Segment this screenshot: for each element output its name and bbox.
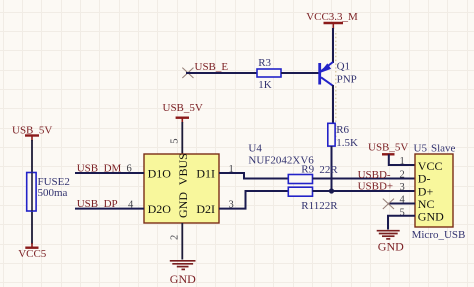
svg-text:R3: R3: [258, 57, 271, 69]
svg-text:1K: 1K: [258, 79, 272, 91]
fuse FUSE2: [27, 173, 70, 212]
connector U5: [415, 154, 453, 227]
svg-text:USBD-: USBD-: [358, 169, 391, 181]
svg-text:500ma: 500ma: [38, 187, 68, 199]
svg-text:2: 2: [400, 169, 405, 180]
svg-text:D1O: D1O: [148, 167, 172, 181]
svg-text:R6: R6: [336, 124, 349, 136]
power port USB_5V (right): [368, 141, 408, 154]
svg-text:GND: GND: [176, 192, 190, 218]
wire R6 to D+ junction: [331, 146, 333, 191]
svg-text:Q1: Q1: [337, 60, 350, 72]
no-ERC marker on USB_E: [182, 68, 193, 78]
svg-text:USB_5V: USB_5V: [163, 102, 203, 114]
transistor Q1: [320, 60, 357, 85]
wire VCC3.3_M to Q1 emitter: [332, 28, 334, 63]
svg-text:R1122R: R1122R: [301, 200, 338, 212]
svg-text:2: 2: [170, 235, 181, 240]
svg-text:1.5K: 1.5K: [336, 137, 358, 149]
svg-text:VCC5: VCC5: [18, 248, 47, 260]
svg-text:VBUS: VBUS: [176, 153, 190, 185]
svg-text:D2I: D2I: [196, 202, 215, 216]
wire USB_5V to U5 pin1: [389, 154, 415, 165]
no-ERC marker on NC pin: [383, 199, 394, 209]
wire U4 pin1 to R9: [219, 173, 288, 179]
svg-text:VCC3.3_M: VCC3.3_M: [306, 11, 358, 23]
svg-text:USB_5V: USB_5V: [368, 141, 408, 153]
resistor R3: [257, 57, 281, 91]
wire Q1 collector to R6: [332, 85, 334, 124]
power port USB_5V (above U4): [163, 102, 203, 123]
svg-text:U5: U5: [414, 143, 428, 155]
wire U4 GND pin to ground: [181, 223, 183, 260]
wire R9 to U5 pin2: [313, 178, 416, 180]
svg-text:GND: GND: [170, 272, 196, 286]
svg-text:U4: U4: [248, 143, 262, 155]
svg-text:USB_E: USB_E: [195, 61, 229, 73]
wire U4 pin3 to R11: [219, 191, 288, 209]
compile marker dotted line: [335, 33, 337, 140]
svg-text:Micro_USB: Micro_USB: [412, 229, 466, 241]
wire USB_DM to U4: [75, 172, 144, 174]
svg-text:5: 5: [170, 139, 181, 144]
wire USB_E to R3: [186, 72, 257, 74]
svg-text:22R: 22R: [319, 164, 338, 176]
resistor R6: [328, 123, 358, 149]
svg-text:USBD+: USBD+: [358, 180, 394, 192]
ground (below U5 pin5): [377, 231, 400, 239]
power port VCC3.3_M: [306, 11, 358, 29]
junction: [329, 188, 334, 193]
resistor R9: [288, 164, 338, 184]
svg-text:1: 1: [400, 156, 405, 167]
svg-text:D1I: D1I: [196, 167, 215, 181]
svg-text:D2O: D2O: [148, 202, 172, 216]
wire R11 to U5 pin3: [313, 190, 416, 192]
wire USB_DP to U4: [75, 208, 144, 210]
power port VCC5: [18, 243, 47, 260]
svg-text:3: 3: [400, 182, 405, 193]
svg-text:GND: GND: [418, 210, 444, 224]
wire USB_5V to U4 VBUS pin: [181, 122, 183, 154]
wire U5 pin5 to ground: [388, 216, 415, 230]
wire R3 to Q1 base: [281, 72, 319, 74]
power port USB_5V (left): [12, 125, 52, 141]
pin numbers U5: [400, 156, 406, 218]
svg-text:Slave: Slave: [431, 143, 456, 155]
svg-text:GND: GND: [378, 240, 404, 254]
resistor R11: [288, 187, 338, 212]
svg-text:R9: R9: [301, 164, 314, 176]
wire left rail: [31, 140, 33, 244]
ground (below U4): [170, 261, 196, 270]
svg-text:PNP: PNP: [337, 73, 357, 85]
IC U4: [144, 153, 219, 223]
wire stub U5 pin4 (NC): [389, 203, 416, 205]
